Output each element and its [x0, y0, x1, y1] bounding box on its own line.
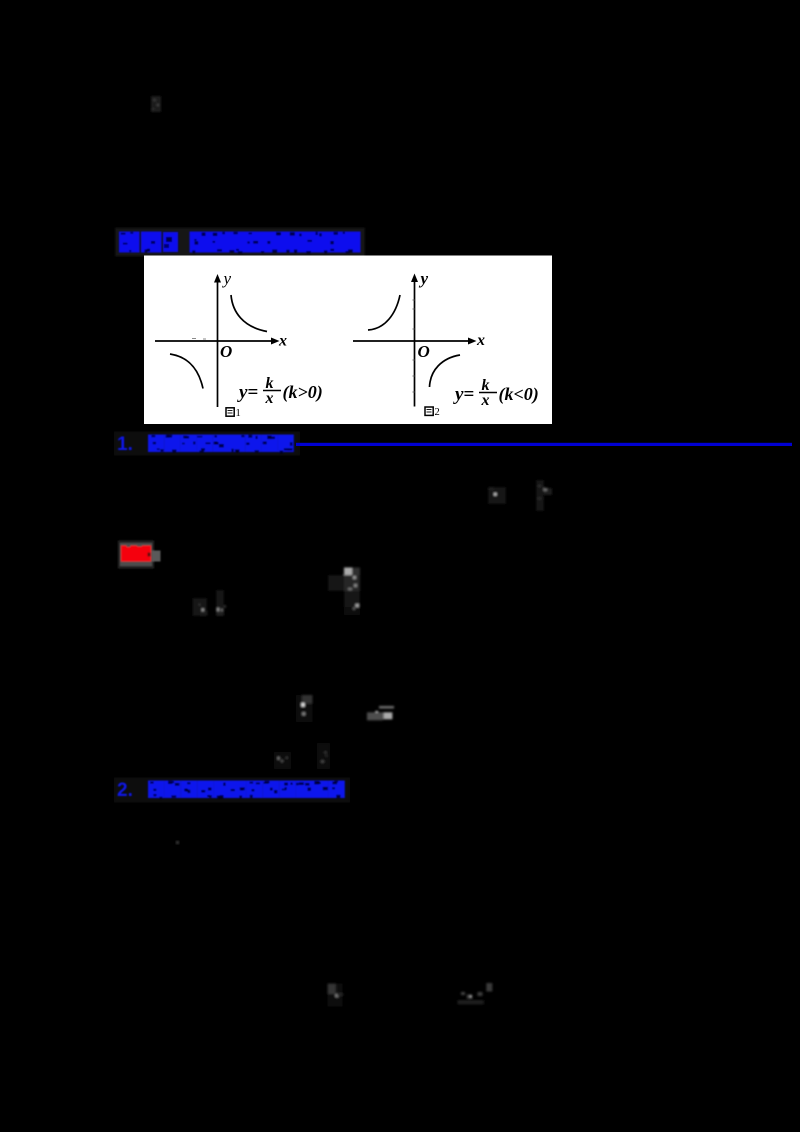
right graph: x-axis arrowhead [468, 338, 477, 345]
heading 1 halo [114, 432, 300, 456]
white figure box [144, 256, 552, 425]
right graph: origin label O [418, 342, 430, 361]
svg-text:2.: 2. [117, 780, 133, 801]
right graph: faint tick marks on y-axis [413, 300, 415, 392]
heading 2 halo [114, 778, 350, 803]
right graph: hyperbola branch quadrant II [368, 295, 400, 330]
svg-text:2: 2 [435, 407, 440, 418]
heading 1 [117, 434, 294, 455]
left graph: axis label y [222, 269, 232, 288]
svg-text:y=: y= [237, 382, 258, 403]
faint marks y~700 [296, 695, 394, 722]
svg-text:x: x [476, 332, 485, 349]
svg-text:O: O [220, 342, 232, 361]
svg-text:y=: y= [453, 384, 474, 405]
faint fraction bottom left [328, 984, 343, 1007]
left graph: x-axis [155, 340, 273, 342]
left graph: hyperbola branch quadrant III [170, 354, 203, 389]
svg-text:1.: 1. [117, 434, 133, 455]
right graph: x-axis [353, 340, 470, 342]
right graph: caption "fig 2" glyph box and numeral [425, 407, 440, 418]
svg-text:O: O [418, 342, 430, 361]
left graph: faint tick marks on negative x-axis [192, 338, 206, 341]
left graph: hyperbola branch quadrant I [231, 295, 267, 332]
left graph: y-axis arrowhead [214, 274, 221, 283]
faint marks y~750 [274, 743, 330, 769]
red blob [118, 541, 161, 569]
faint glyph top [151, 96, 161, 112]
faint marks bottom right [457, 983, 492, 1005]
left graph: axis label x [278, 333, 287, 350]
speck [176, 841, 179, 844]
left graph: formula y=k/x (k>0) [237, 375, 323, 407]
right graph: y-axis [414, 278, 416, 407]
blue title halo [115, 228, 365, 257]
svg-text:y: y [419, 269, 429, 288]
svg-text:(k<0): (k<0) [499, 384, 539, 405]
right graph: hyperbola branch quadrant IV [430, 355, 461, 387]
left graph: origin label O [220, 342, 232, 361]
svg-text:x: x [481, 392, 490, 409]
faint glyphs x~200 [193, 590, 227, 616]
faint fraction block [328, 568, 360, 616]
long blue line [296, 443, 792, 446]
svg-text:x: x [265, 390, 274, 407]
right graph: axis label x [476, 332, 485, 349]
left graph: y-axis [217, 278, 219, 407]
right graph: axis label y [419, 269, 429, 288]
right graph: y-axis arrowhead [411, 274, 418, 283]
faint eq mid [488, 480, 552, 511]
left graph: x-axis arrowhead [271, 338, 280, 345]
svg-text:x: x [278, 333, 287, 350]
heading 2 [117, 780, 345, 801]
left graph: caption "fig 1" glyph box and numeral [226, 408, 241, 419]
svg-text:y: y [222, 269, 232, 288]
svg-text:1: 1 [236, 408, 241, 419]
right graph: formula y=k/x (k<0) [453, 377, 539, 409]
blue title blobs [119, 232, 361, 255]
svg-text:(k>0): (k>0) [283, 382, 323, 403]
